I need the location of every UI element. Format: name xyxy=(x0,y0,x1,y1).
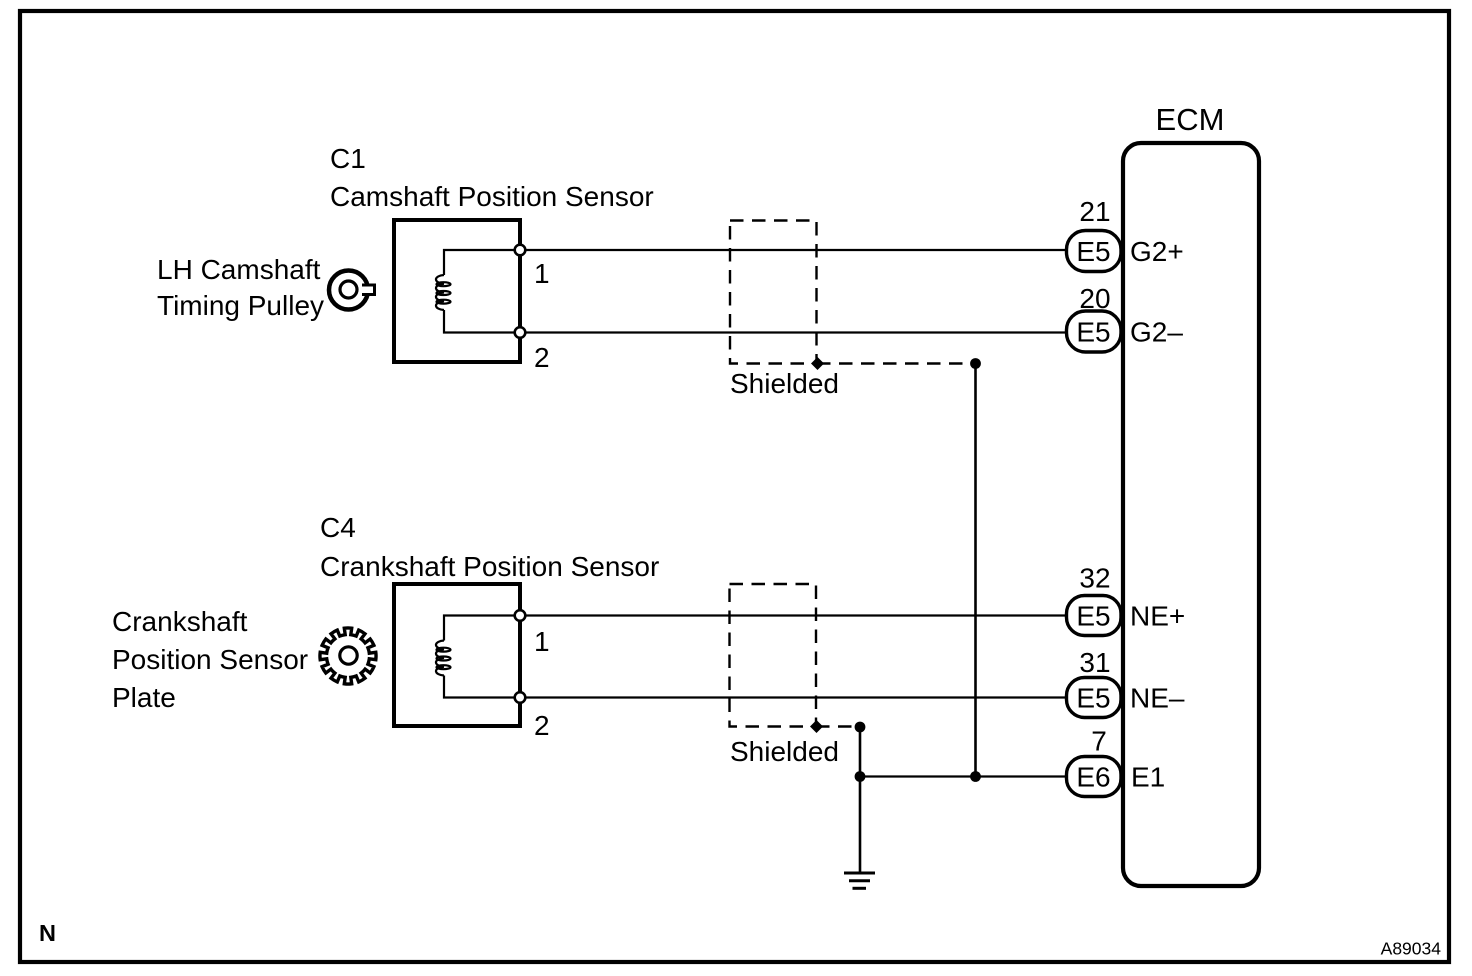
svg-text:ECM: ECM xyxy=(1156,102,1225,137)
svg-text:G2+: G2+ xyxy=(1130,236,1184,267)
svg-text:A89034: A89034 xyxy=(1381,939,1442,959)
svg-text:20: 20 xyxy=(1079,283,1110,314)
svg-text:E5: E5 xyxy=(1076,601,1110,632)
svg-text:G2–: G2– xyxy=(1130,317,1183,348)
svg-text:N: N xyxy=(39,920,56,946)
svg-text:NE+: NE+ xyxy=(1130,601,1185,632)
svg-text:Plate: Plate xyxy=(112,682,176,713)
svg-text:31: 31 xyxy=(1079,647,1110,678)
svg-text:1: 1 xyxy=(534,258,550,289)
svg-text:32: 32 xyxy=(1079,563,1110,594)
svg-text:E1: E1 xyxy=(1131,762,1165,793)
svg-text:Shielded: Shielded xyxy=(730,736,839,767)
svg-text:E5: E5 xyxy=(1076,317,1110,348)
svg-text:7: 7 xyxy=(1091,726,1107,757)
svg-text:Timing Pulley: Timing Pulley xyxy=(157,290,324,321)
svg-text:1: 1 xyxy=(534,626,550,657)
svg-text:C1: C1 xyxy=(330,143,366,174)
svg-text:C4: C4 xyxy=(320,512,356,543)
svg-text:Crankshaft: Crankshaft xyxy=(112,606,248,637)
svg-text:E5: E5 xyxy=(1076,683,1110,714)
svg-text:21: 21 xyxy=(1079,196,1110,227)
svg-text:E5: E5 xyxy=(1076,236,1110,267)
svg-text:2: 2 xyxy=(534,342,550,373)
svg-text:Camshaft Position Sensor: Camshaft Position Sensor xyxy=(330,181,654,212)
svg-text:E6: E6 xyxy=(1076,762,1110,793)
svg-text:2: 2 xyxy=(534,710,550,741)
svg-text:NE–: NE– xyxy=(1130,683,1185,714)
svg-text:Position Sensor: Position Sensor xyxy=(112,644,308,675)
svg-text:Crankshaft Position Sensor: Crankshaft Position Sensor xyxy=(320,551,659,582)
svg-text:LH Camshaft: LH Camshaft xyxy=(157,254,321,285)
svg-text:Shielded: Shielded xyxy=(730,368,839,399)
